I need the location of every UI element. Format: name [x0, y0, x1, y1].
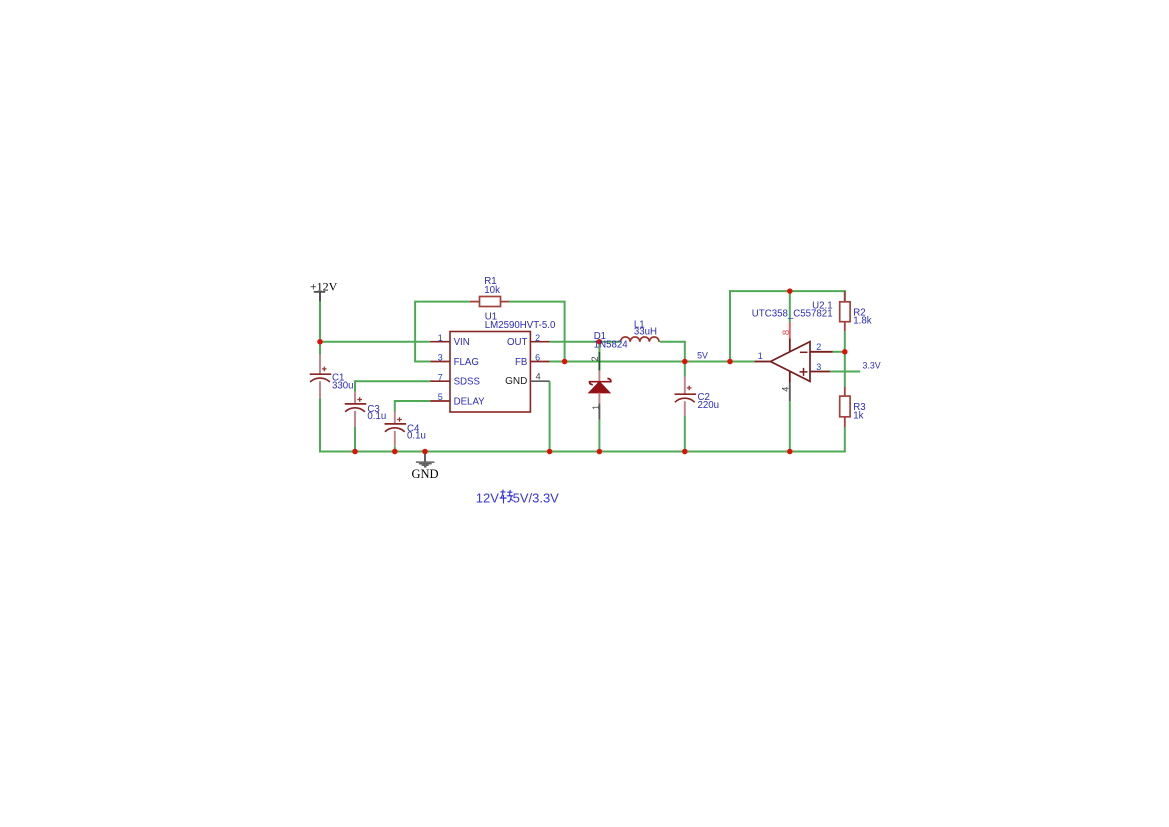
svg-text:1: 1	[758, 351, 763, 361]
svg-text:220u: 220u	[698, 400, 720, 411]
svg-text:GND: GND	[411, 467, 438, 481]
svg-text:0.1u: 0.1u	[367, 411, 386, 422]
svg-text:1.8k: 1.8k	[853, 316, 871, 327]
svg-text:5V/3.3V: 5V/3.3V	[513, 490, 560, 505]
svg-text:1: 1	[591, 405, 601, 410]
svg-text:SDSS: SDSS	[454, 377, 481, 388]
svg-text:UTC358_C557821: UTC358_C557821	[752, 309, 833, 320]
svg-text:10k: 10k	[484, 285, 500, 296]
svg-text:330u: 330u	[332, 380, 354, 391]
svg-text:2: 2	[590, 356, 600, 361]
svg-text:VIN: VIN	[454, 337, 470, 348]
svg-text:OUT: OUT	[507, 337, 528, 348]
svg-text:12V: 12V	[476, 490, 499, 505]
svg-text:7: 7	[438, 372, 443, 382]
svg-text:5: 5	[438, 392, 443, 402]
svg-text:1N5824: 1N5824	[594, 340, 629, 351]
svg-text:2: 2	[816, 342, 821, 352]
svg-text:GND: GND	[505, 376, 527, 387]
svg-text:3.3V: 3.3V	[863, 360, 881, 370]
svg-text:FB: FB	[515, 357, 527, 368]
svg-text:1: 1	[438, 333, 443, 343]
svg-text:33uH: 33uH	[634, 327, 657, 338]
svg-text:3: 3	[816, 362, 821, 372]
svg-text:4: 4	[780, 387, 790, 392]
svg-text:4: 4	[536, 372, 541, 382]
svg-text:0.1u: 0.1u	[407, 430, 426, 441]
svg-text:DELAY: DELAY	[454, 396, 486, 407]
svg-text:1k: 1k	[853, 411, 863, 422]
svg-text:LM2590HVT-5.0: LM2590HVT-5.0	[485, 320, 556, 331]
svg-text:2: 2	[535, 333, 540, 343]
svg-text:FLAG: FLAG	[454, 357, 479, 368]
svg-text:8: 8	[781, 330, 792, 335]
svg-text:3: 3	[438, 353, 443, 363]
svg-text:5V: 5V	[697, 350, 708, 360]
svg-text:+12V: +12V	[310, 279, 338, 293]
svg-text:6: 6	[535, 353, 540, 363]
